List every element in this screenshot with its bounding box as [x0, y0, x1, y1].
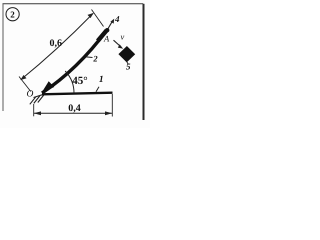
border left	[2, 4, 4, 111]
svg-text:0,4: 0,4	[68, 103, 81, 114]
extension line upper (near A)	[92, 10, 104, 27]
background	[0, 0, 150, 128]
point A	[105, 28, 109, 32]
dim 0,4 arrowhead right	[105, 111, 112, 115]
svg-text:4: 4	[114, 14, 120, 24]
dimension 0,6 line	[21, 14, 93, 80]
horizontal guide 1	[42, 93, 113, 95]
svg-text:A: A	[103, 34, 110, 44]
arrow 4 from A	[108, 21, 112, 28]
leader for label 2	[86, 56, 93, 59]
svg-text:5: 5	[126, 62, 131, 72]
leader for label 5	[127, 62, 128, 64]
rod end wedge at O	[42, 81, 54, 92]
dim 0,6 arrowhead lower	[20, 75, 26, 80]
svg-text:45°: 45°	[72, 75, 87, 87]
border right	[143, 4, 145, 120]
svg-text:2: 2	[10, 9, 15, 19]
leader for label 1	[96, 87, 99, 92]
dim 0,4 arrowhead left	[34, 111, 41, 115]
velocity arrow v	[114, 40, 121, 46]
angle arc 45	[65, 71, 74, 93]
dimension 0,4 extension right	[111, 94, 113, 117]
dimension 0,4 extension left	[33, 104, 35, 116]
dim 0,6 arrowhead upper	[88, 13, 94, 18]
extension line lower (near O)	[19, 77, 31, 92]
svg-text:2: 2	[92, 53, 98, 63]
border top	[3, 3, 144, 5]
svg-text:v: v	[121, 32, 125, 42]
support hatching at O	[30, 94, 44, 104]
rod end thickening at A	[98, 30, 107, 41]
svg-text:0,6: 0,6	[50, 38, 63, 49]
block 5 (rotated square)	[118, 46, 135, 62]
figure number circle 2	[6, 8, 19, 21]
svg-text:1: 1	[99, 75, 104, 85]
rod 2 (OA)	[42, 30, 107, 93]
dimension 0,4 line	[34, 112, 113, 114]
